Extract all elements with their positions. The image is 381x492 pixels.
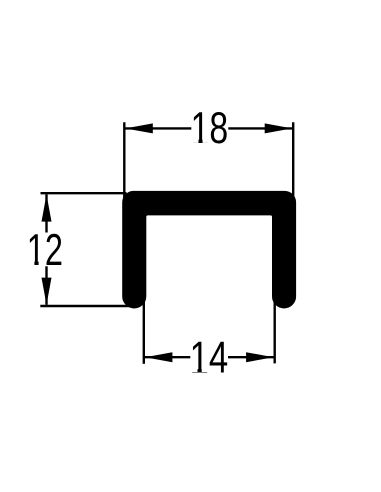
- dimension 14: left arrowhead: [145, 352, 172, 362]
- dimension 14: dimension line right segment: [228, 356, 274, 358]
- dimension 18: value label "18": [191, 104, 229, 153]
- dimension 14: right extension line: [274, 302, 276, 363]
- U-channel profile cross-section (filled): [125, 193, 294, 306]
- dimension 12: down arrowhead: [42, 278, 52, 305]
- dimension 12: bottom extension line: [40, 305, 134, 307]
- white patches to remove serif foot of digit 1 (target font has no foot): [28, 139, 209, 372]
- dimension 14: left extension line: [143, 302, 145, 364]
- svg-text:14: 14: [190, 333, 229, 382]
- svg-text:12: 12: [27, 226, 63, 275]
- dimension 14: value label "14": [190, 333, 229, 382]
- dimension 18: left arrowhead: [125, 123, 152, 133]
- dimension 12: up arrowhead: [42, 194, 52, 221]
- dimension 14: right arrowhead: [246, 352, 273, 362]
- dimension 12: dimension line upper segment: [45, 194, 47, 232]
- dimension 12: dimension line lower segment: [45, 266, 47, 305]
- dimension 12: value label "12": [27, 226, 63, 275]
- dimension 18: right arrowhead: [265, 123, 292, 133]
- dimension 18: dimension line right segment: [228, 127, 293, 129]
- svg-text:18: 18: [191, 104, 229, 153]
- dimension 12: top extension line: [41, 192, 127, 194]
- dimension 18: right extension line: [292, 122, 294, 215]
- dimension 18: dimension line left segment: [124, 127, 191, 129]
- dimension 14: dimension line left segment: [145, 356, 190, 358]
- dimension 18: left extension line: [123, 122, 125, 203]
